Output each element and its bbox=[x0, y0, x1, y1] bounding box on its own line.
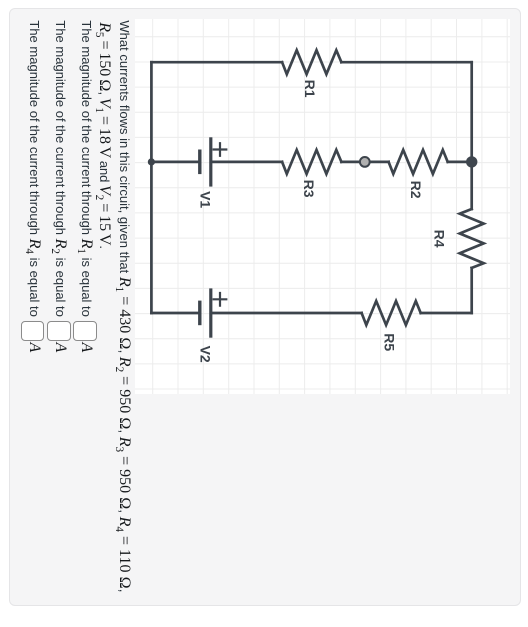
node bottom junction bbox=[148, 159, 155, 166]
plus sign V2 bbox=[214, 293, 227, 306]
unit A line 5 bbox=[25, 343, 43, 353]
answer line R2 bbox=[51, 20, 69, 317]
resistor R2 bbox=[389, 150, 448, 174]
input box line 4 bbox=[47, 321, 71, 341]
svg-text:V1: V1 bbox=[198, 191, 214, 208]
wire bottom bbox=[150, 63, 153, 314]
resistor R3 bbox=[282, 150, 341, 174]
input box line 3 bbox=[73, 321, 97, 341]
answer line R1 bbox=[77, 20, 95, 317]
resistor R5 bbox=[362, 301, 421, 325]
wire top (R4 wire) bbox=[470, 63, 473, 314]
plus sign V1 bbox=[214, 144, 227, 157]
wire middle segments around R2, R3, V1 bbox=[151, 161, 471, 164]
battery V2 bbox=[200, 289, 211, 338]
white image background bbox=[135, 19, 510, 394]
resistor R1 bbox=[282, 51, 341, 75]
question line 1 bbox=[115, 20, 133, 592]
node top junction bbox=[466, 157, 477, 168]
battery V1 bbox=[200, 138, 211, 187]
node gray mid bbox=[360, 157, 370, 167]
unit A line 3 bbox=[77, 343, 95, 353]
input box line 5 bbox=[21, 321, 45, 341]
circuit diagram image bbox=[135, 19, 510, 394]
question line 2 bbox=[95, 22, 113, 249]
svg-text:V2: V2 bbox=[198, 346, 214, 363]
svg-text:R2: R2 bbox=[408, 181, 424, 199]
unit A line 4 bbox=[51, 343, 69, 353]
resistor R4 bbox=[460, 209, 484, 268]
wire right segments around R5 and V2 bbox=[151, 312, 471, 315]
svg-text:R4: R4 bbox=[432, 230, 448, 248]
svg-text:R5: R5 bbox=[382, 334, 398, 352]
wire left segments around R1 bbox=[151, 61, 471, 64]
answer line R4 bbox=[25, 20, 43, 317]
svg-text:R1: R1 bbox=[302, 80, 318, 98]
svg-text:R3: R3 bbox=[301, 180, 317, 198]
